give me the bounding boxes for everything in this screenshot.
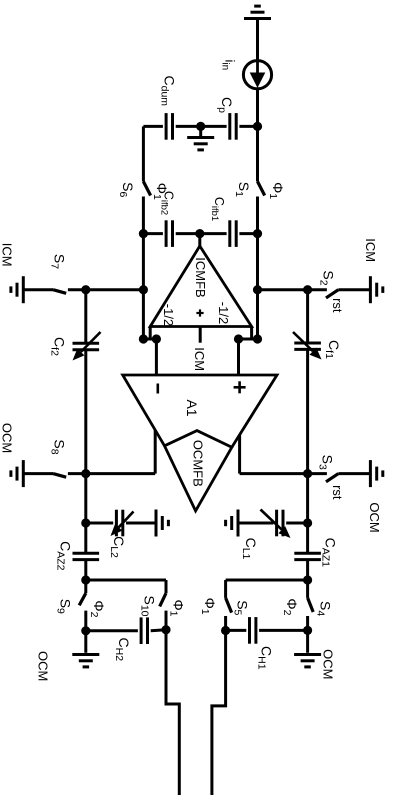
svg-text:rst: rst — [330, 485, 345, 500]
svg-text:A1: A1 — [184, 399, 200, 416]
svg-text:OCM: OCM — [36, 651, 51, 681]
svg-text:OCM: OCM — [0, 423, 15, 453]
svg-text:ICM: ICM — [192, 347, 207, 371]
svg-text:ICM: ICM — [0, 243, 15, 267]
svg-text:OCM: OCM — [321, 649, 336, 679]
svg-text:rst: rst — [330, 298, 345, 313]
svg-text:-1/2: -1/2 — [161, 304, 176, 326]
svg-text:OCMFB: OCMFB — [191, 440, 206, 487]
svg-text:ICM: ICM — [363, 238, 378, 262]
svg-text:ICMFB: ICMFB — [193, 257, 208, 297]
svg-text:-1/2: -1/2 — [216, 302, 231, 324]
svg-text:OCM: OCM — [367, 502, 382, 532]
